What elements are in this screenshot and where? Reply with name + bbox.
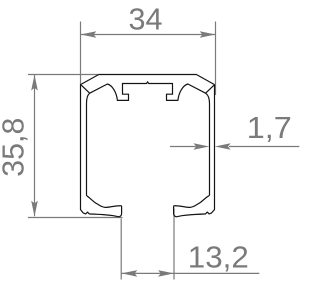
profile right half: right inner wall, right foot with lip, right wall, right chamfer, top surface: [99, 75, 215, 217]
svg-text:13,2: 13,2: [188, 240, 249, 275]
arrowhead 34 left: [81, 31, 97, 38]
dimension line 13,2: [122, 272, 260, 274]
arrowhead 13,2 right: [158, 270, 174, 277]
dimension line 35,8: [34, 75, 36, 216]
extension line left of dim 34: [80, 22, 82, 85]
leader line outer of dim 1,7: [229, 146, 299, 148]
svg-text:35,8: 35,8: [0, 118, 31, 177]
arrowhead 1,7 inner: [194, 143, 210, 150]
extension line left of dim 13,2: [120, 219, 122, 280]
profile top screw slot with side lips and centre tick: [90, 82, 214, 101]
extension line right of dim 34: [215, 22, 217, 96]
svg-text:1,7: 1,7: [247, 110, 292, 145]
arrowhead 35,8 top: [31, 75, 38, 91]
profile left half: top surface, left chamfer, left wall, left foot with lip, left inner wall, corner slit: [81, 75, 122, 217]
extension line top of dim 35,8: [28, 74, 99, 76]
svg-text:34: 34: [129, 1, 163, 36]
arrowhead 35,8 bottom: [31, 201, 38, 217]
arrowhead 13,2 left: [122, 270, 138, 277]
extension line right of dim 13,2: [173, 209, 175, 280]
arrowhead 34 right: [200, 31, 216, 38]
dimension line 34: [81, 34, 216, 36]
arrowhead 1,7 outer: [215, 143, 231, 150]
leader line inner of dim 1,7: [170, 146, 196, 148]
extension line bottom of dim 35,8: [28, 217, 123, 219]
